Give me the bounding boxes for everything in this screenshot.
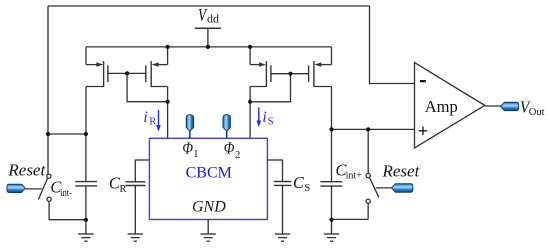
probe terminal Phi2 (blue connector) [223,115,230,138]
capacitor Cint- [75,182,97,186]
CBCM block box [149,138,267,219]
wire right switch vertical top [367,129,369,173]
svg-text:C: C [293,173,305,192]
svg-text:Amp: Amp [425,97,458,116]
ground under CBCM [201,220,216,242]
wire Cint+ bottom [331,186,333,219]
svg-text:dd: dd [207,11,219,25]
capacitor Cint+ [320,182,342,186]
capacitor CR [126,182,146,186]
svg-text:1: 1 [193,149,198,160]
wire Cint- top [85,134,87,182]
transistor Q1 (outer-left PMOS) [86,47,108,134]
switch SW2 (right Reset) [366,173,392,219]
wire left node link [48,133,86,135]
Vdd supply symbol [195,27,221,29]
svg-text:Reset: Reset [7,160,46,179]
svg-text:S: S [304,183,310,194]
wire iS to CBCM [249,102,251,139]
svg-text:int-: int- [60,188,72,199]
current arrow iS [257,107,262,127]
Vout terminal (blue connector) [501,102,519,110]
ground under CS [275,185,290,241]
amp minus sign [420,80,426,82]
svg-text:Reset: Reset [382,161,421,180]
svg-text:CBCM: CBCM [186,164,232,181]
wire Cint- bottom [85,186,87,220]
svg-text:2: 2 [235,150,240,161]
op-amp U1 [415,63,485,148]
probe terminal Phi1 (blue connector) [186,115,193,138]
wire top feedback loop [48,6,415,84]
svg-text:GND: GND [192,199,226,216]
capacitor CS wiring [267,160,282,182]
wire iR to CBCM [167,102,169,139]
svg-text:S: S [268,116,274,127]
svg-text:Φ: Φ [224,138,235,157]
svg-text:int+: int+ [346,171,363,182]
wire right diode link [250,74,290,102]
svg-text:Out: Out [529,107,545,118]
ground under Cint+ [324,219,339,241]
ground under Cint- [78,220,93,242]
wire amp output [485,105,501,107]
reset terminal left (blue connector) [7,184,25,192]
Vdd rail [86,46,332,48]
svg-text:R: R [149,117,156,128]
svg-text:R: R [120,184,127,195]
wire amp plus input [332,128,415,130]
ground under CR [128,186,143,242]
wire left outer vertical [47,6,49,174]
transistor Q2 (inner-left PMOS, diode-connected) [108,47,168,102]
wire right bottom link [332,218,369,220]
node dots [46,45,370,222]
transistor Q3 (inner-right PMOS, diode-connected) [250,47,290,102]
svg-text:Φ: Φ [182,138,193,157]
capacitor CR wiring [135,160,149,182]
svg-text:i: i [262,109,266,126]
capacitor CS [274,182,292,186]
reset terminal right (blue connector) [392,184,413,193]
transistor Q4 (outer-right PMOS) [291,47,332,129]
switch SW1 (left Reset) [25,174,51,220]
current arrow iR [156,110,161,132]
amp plus sign [419,127,427,135]
wire Cint+ top [331,129,333,181]
wire left diode link [127,73,168,101]
wire left bottom link [49,219,86,221]
svg-text:i: i [143,109,147,126]
